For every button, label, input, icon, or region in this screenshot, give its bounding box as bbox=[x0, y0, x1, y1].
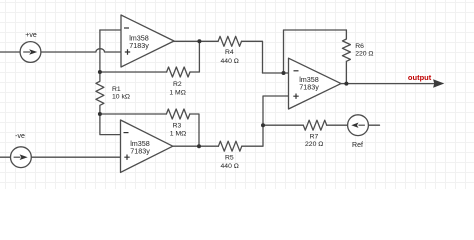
svg-text:R2: R2 bbox=[173, 81, 182, 88]
wire node up to U3 + input bbox=[263, 96, 289, 125]
svg-text:1 MΩ: 1 MΩ bbox=[170, 131, 186, 138]
wire R4 right, corner down to U3 - row bbox=[242, 41, 263, 73]
op-amp U3 bbox=[289, 58, 342, 109]
grid (decorative) bbox=[0, 0, 474, 189]
wire R5 right corner up to node bbox=[242, 125, 263, 146]
svg-text:+ve: +ve bbox=[25, 32, 37, 39]
resistor R1 10 kO vertical bbox=[96, 72, 104, 114]
node R1 top bbox=[98, 70, 102, 74]
svg-text:Ref: Ref bbox=[352, 142, 363, 149]
node U3 minus rail bbox=[282, 71, 286, 75]
svg-text:440 Ω: 440 Ω bbox=[221, 58, 239, 65]
svg-text:-ve: -ve bbox=[15, 133, 25, 140]
wire R2 right + up to U1 output node bbox=[190, 41, 199, 72]
svg-text:output: output bbox=[408, 73, 432, 82]
svg-text:R6: R6 bbox=[355, 43, 364, 50]
svg-text:R5: R5 bbox=[225, 155, 234, 162]
wire R7 to Ref source bbox=[327, 124, 348, 126]
svg-text:7183y: 7183y bbox=[299, 82, 319, 91]
wire U3 minus row bbox=[263, 72, 289, 74]
resistor R5 440 O bbox=[218, 141, 241, 151]
resistor R2 1 MO bbox=[167, 67, 190, 77]
wire vertical R1 bottom to U2 - input bbox=[100, 114, 121, 135]
node R7 junction bbox=[261, 123, 265, 127]
wire node to R7 bbox=[263, 124, 303, 126]
svg-text:220 Ω: 220 Ω bbox=[305, 141, 323, 148]
wire -ve input to source bbox=[0, 156, 11, 158]
svg-text:R7: R7 bbox=[310, 134, 319, 141]
resistor R6 220 O vertical bbox=[342, 30, 350, 84]
label R2 bbox=[169, 81, 185, 97]
resistor R3 1 MO bbox=[166, 109, 189, 119]
label R4 bbox=[221, 49, 239, 65]
label R1 bbox=[112, 86, 130, 101]
source -ve bbox=[11, 133, 32, 168]
node U3 output bbox=[344, 82, 348, 86]
svg-text:R4: R4 bbox=[225, 49, 234, 56]
wire U2 output row bbox=[173, 145, 219, 147]
node U2 output bbox=[197, 144, 201, 148]
svg-text:10 kΩ: 10 kΩ bbox=[112, 93, 130, 100]
node U1 output bbox=[197, 39, 201, 43]
wire R3 right + down to U2 output node bbox=[190, 114, 199, 146]
wire U3 output row bbox=[341, 83, 434, 85]
wire right of Ref source bbox=[368, 124, 379, 126]
svg-text:7183y: 7183y bbox=[130, 147, 150, 156]
label R7 bbox=[305, 134, 323, 148]
wire R2 row left bbox=[100, 71, 167, 73]
op-amp U1 bbox=[121, 15, 174, 67]
source Ref bbox=[348, 115, 369, 149]
output arrow bbox=[408, 73, 444, 88]
svg-text:440 Ω: 440 Ω bbox=[221, 163, 239, 170]
label R3 bbox=[170, 123, 186, 138]
wire U1 - input bbox=[100, 29, 121, 31]
svg-text:7183y: 7183y bbox=[129, 41, 149, 50]
label R6 bbox=[355, 43, 373, 58]
wire vertical minus1 to R1 top node bbox=[99, 30, 101, 72]
svg-text:R3: R3 bbox=[173, 123, 182, 130]
svg-text:1 MΩ: 1 MΩ bbox=[169, 90, 185, 97]
svg-text:R1: R1 bbox=[112, 86, 121, 93]
wire R3 row bbox=[100, 113, 166, 115]
resistor R7 220 O bbox=[303, 120, 326, 130]
op-amp U2 bbox=[121, 120, 173, 172]
wire source to U2 + input bbox=[31, 156, 120, 158]
svg-text:220 Ω: 220 Ω bbox=[355, 51, 373, 58]
wire U1 output row bbox=[174, 40, 218, 42]
source +ve bbox=[20, 32, 41, 62]
resistor R4 440 O bbox=[218, 36, 241, 46]
wire vertical to top rail bbox=[284, 30, 347, 73]
label R5 bbox=[221, 155, 239, 171]
node R1 bottom bbox=[98, 112, 102, 116]
wire +ve input to source bbox=[0, 51, 20, 53]
wire source to op-amp U1 + input (with hop over vertical) bbox=[41, 49, 121, 52]
